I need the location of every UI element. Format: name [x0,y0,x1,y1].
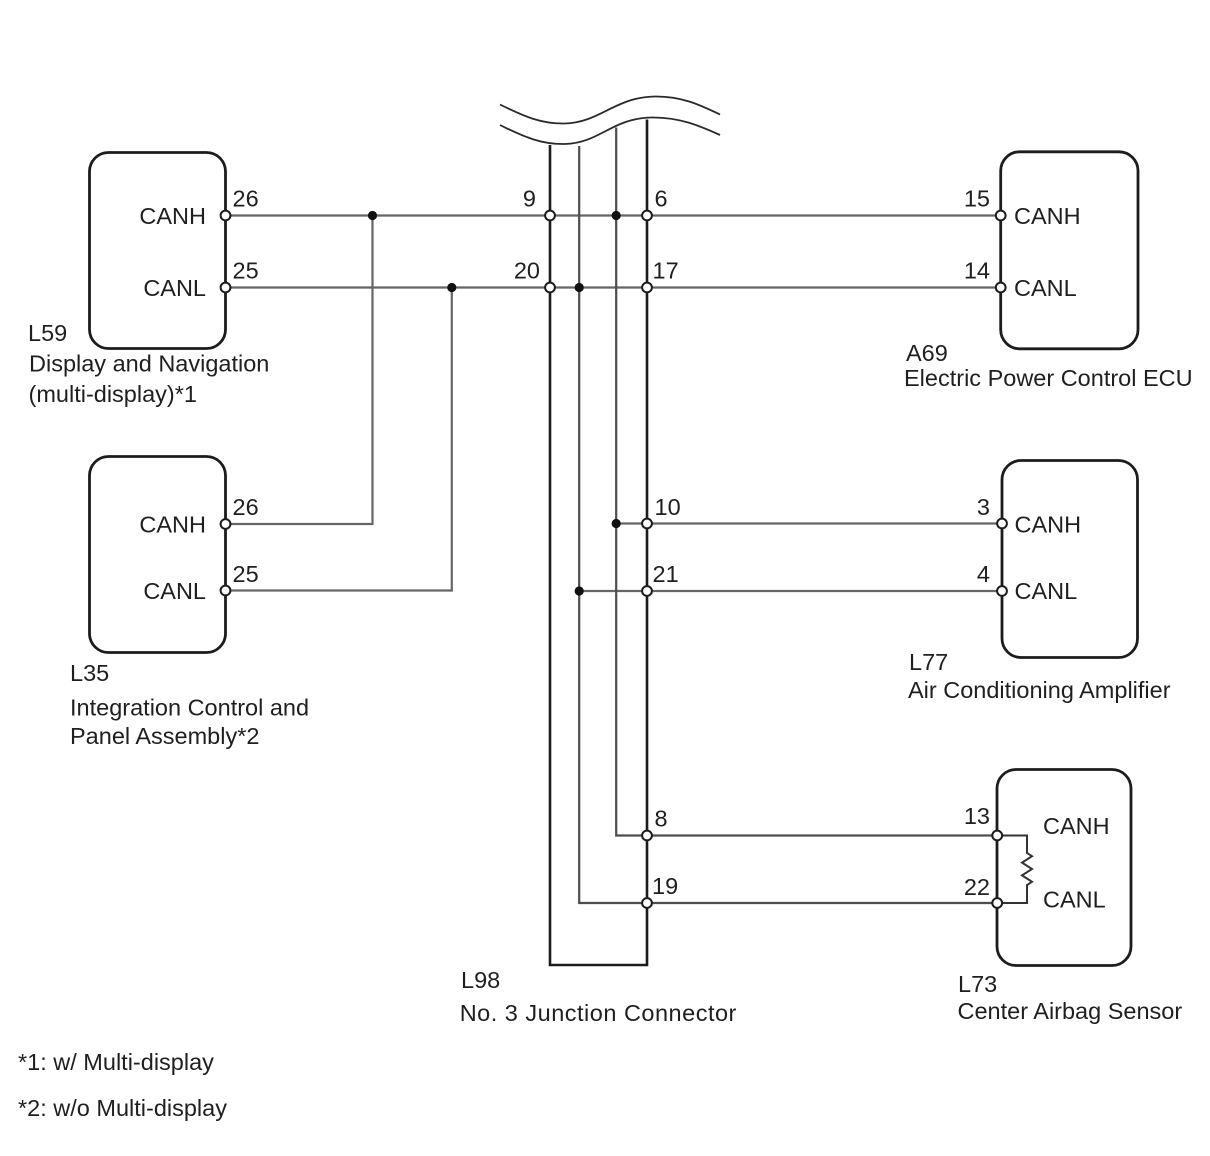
connector box L35 [90,457,226,653]
connector box L73 [997,770,1131,966]
connector box A69 [1001,152,1138,349]
node: junction dot row1 / bus v3 [612,211,621,220]
svg-text:CANH: CANH [139,512,206,538]
svg-text:L98: L98 [461,967,500,993]
pin circle L59-26 [221,211,231,221]
svg-text:8: 8 [655,806,668,832]
svg-text:17: 17 [653,258,679,284]
pin circle L98-21 [642,586,652,596]
wire CANH row1 (L59 pin26 to A69 pin15) [226,214,1001,216]
svg-text:25: 25 [233,561,259,587]
svg-text:Panel Assembly*2: Panel Assembly*2 [70,723,259,749]
svg-text:Air Conditioning Amplifier: Air Conditioning Amplifier [908,677,1171,703]
wire bus v2 inside junction (down to pin19 row, to L73 pin22) [579,146,997,903]
pin circle L73-13 [992,831,1002,841]
svg-text:L59: L59 [28,320,67,346]
connector box L59 [90,153,226,349]
svg-text:CANH: CANH [139,203,206,229]
svg-text:CANL: CANL [143,578,206,604]
wire CANL row2 (L59 pin25 to A69 pin14) [226,286,1001,288]
node: junction dot row3 CANH / bus v3 [612,519,621,528]
connector box L77 [1002,461,1138,658]
svg-text:CANL: CANL [1043,887,1106,913]
svg-text:No. 3 Junction Connector: No. 3 Junction Connector [460,1000,737,1026]
svg-text:26: 26 [233,494,259,520]
wire L35 CANL branch (pin25 up to row2) [226,288,452,591]
node: junction dot row2 / bus v2 [575,283,584,292]
pin circle L35-25 [221,586,231,596]
pin circle L77-4 [997,586,1007,596]
svg-text:Display and Navigation: Display and Navigation [29,351,269,377]
svg-text:CANL: CANL [1015,578,1078,604]
node: junction dot row2 / L35 CANL branch [447,283,456,292]
svg-text:A69: A69 [906,340,948,366]
svg-text:L73: L73 [958,971,997,997]
node: junction dot row1 / L35 CANH branch [368,211,377,220]
node: junction dot row3 CANL / bus v2 [575,586,584,595]
svg-text:6: 6 [655,186,668,212]
svg-text:13: 13 [964,803,990,829]
terminating resistor inside L73 [997,836,1032,904]
svg-text:15: 15 [964,186,990,212]
svg-text:3: 3 [977,494,990,520]
wire L35 CANH branch (pin26 up to row1) [226,216,373,525]
wire row3 CANH (junction to L77 pin3) [616,522,1002,524]
pin circle L98-17 [642,283,652,293]
svg-text:14: 14 [964,258,990,284]
svg-text:25: 25 [233,258,259,284]
svg-text:10: 10 [655,494,681,520]
pin circle L73-22 [992,898,1002,908]
break wave lower line [500,117,720,144]
pin circle L98-9 [545,211,555,221]
svg-text:CANH: CANH [1043,813,1110,839]
svg-text:Electric Power Control ECU: Electric Power Control ECU [904,365,1193,391]
svg-text:19: 19 [652,873,678,899]
pin circle A69-15 [996,211,1006,221]
wire row3 CANL (junction to L77 pin4) [579,590,1002,592]
pin circle L98-19 [642,898,652,908]
svg-text:Center Airbag Sensor: Center Airbag Sensor [958,998,1183,1024]
junction connector L98 body (left edge, bottom, right edge) [550,120,647,966]
svg-text:CANH: CANH [1014,203,1081,229]
pin circle L77-3 [997,519,1007,529]
svg-text:*1: w/ Multi-display: *1: w/ Multi-display [18,1049,214,1075]
svg-text:22: 22 [964,874,990,900]
svg-text:20: 20 [514,258,540,284]
wire bus v3 inside junction (down to pin8 row, to L73 pin13) [616,128,997,836]
svg-text:(multi-display)*1: (multi-display)*1 [29,381,197,407]
svg-text:L77: L77 [909,649,948,675]
svg-text:Integration Control and: Integration Control and [70,695,309,721]
pin circle L98-10 [642,519,652,529]
svg-text:9: 9 [523,186,536,212]
break wave upper line [500,96,720,123]
svg-text:CANL: CANL [143,275,206,301]
svg-text:4: 4 [977,561,990,587]
svg-text:CANL: CANL [1014,275,1077,301]
svg-text:CANH: CANH [1015,512,1082,538]
svg-text:*2: w/o Multi-display: *2: w/o Multi-display [18,1095,227,1121]
pin circle L35-26 [221,519,231,529]
svg-text:L35: L35 [70,660,109,686]
svg-text:21: 21 [653,561,679,587]
pin circle L98-20 [545,283,555,293]
pin circle L59-25 [221,283,231,293]
pin circle L98-8 [642,831,652,841]
svg-text:26: 26 [233,186,259,212]
pin circle A69-14 [996,283,1006,293]
pin circle L98-6 [642,211,652,221]
